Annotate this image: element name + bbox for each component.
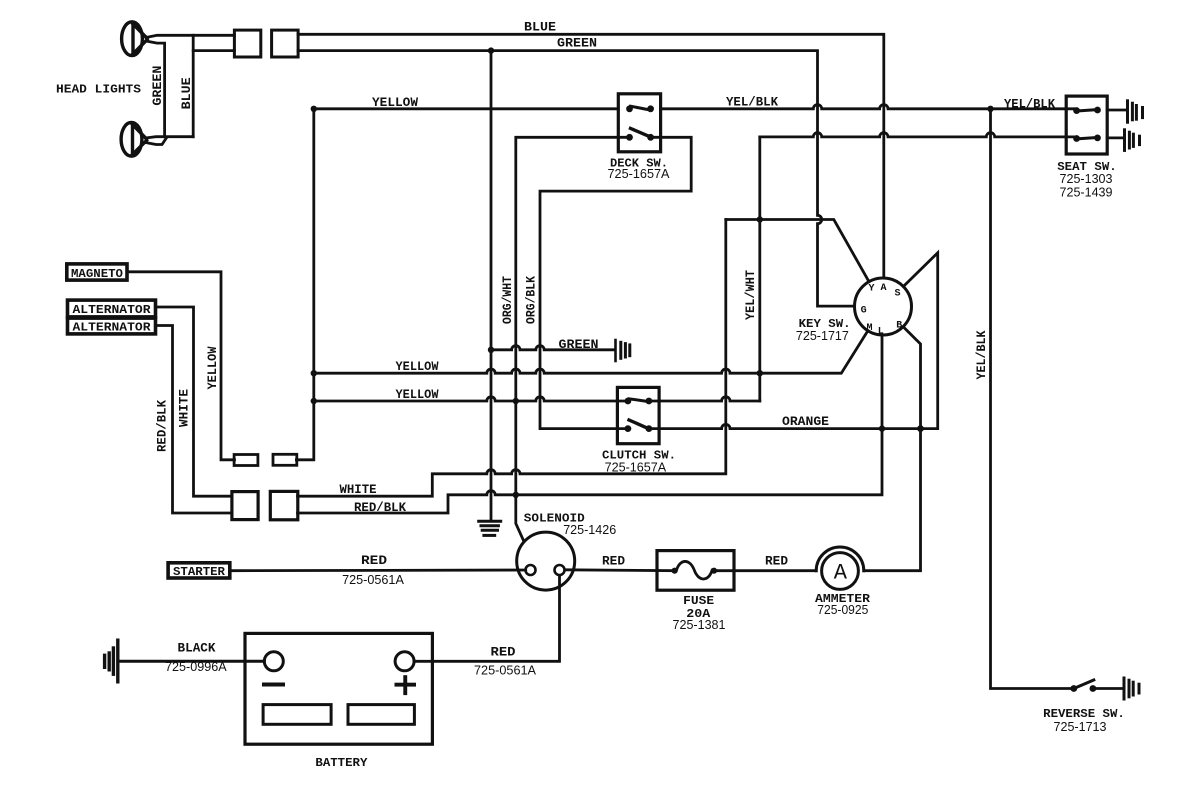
wire ORG/WHT deck to solenoid <box>516 137 630 540</box>
svg-text:YELLOW: YELLOW <box>205 346 220 389</box>
wire GREEN main to key G <box>298 51 854 307</box>
svg-text:S: S <box>894 289 900 300</box>
node riser-yellow1 <box>757 370 763 376</box>
alternator box 1 <box>68 300 156 317</box>
seat switch blade bottom <box>1077 138 1098 139</box>
node orgwht-redblk <box>513 492 519 498</box>
magneto box <box>67 264 127 281</box>
clutch switch blade bottom <box>629 420 647 428</box>
solenoid <box>517 532 575 590</box>
svg-text:ALTERNATOR: ALTERNATOR <box>73 321 152 335</box>
svg-text:ORANGE: ORANGE <box>782 414 829 429</box>
svg-text:725-1439: 725-1439 <box>1060 185 1113 200</box>
wire lamp1 green drop <box>146 41 165 137</box>
wire starter to solenoid RED <box>230 569 526 573</box>
svg-text:A: A <box>880 283 886 294</box>
svg-text:M: M <box>866 323 872 334</box>
connector yellow pin1 <box>234 455 258 466</box>
deck switch blade bottom <box>631 128 649 136</box>
svg-text:GREEN: GREEN <box>150 66 165 106</box>
wire magneto yellow <box>127 272 235 460</box>
svg-text:BATTERY: BATTERY <box>315 756 368 770</box>
clutch switch contacts top <box>625 398 653 405</box>
svg-text:725-1381: 725-1381 <box>673 617 726 632</box>
node orange-B <box>917 425 924 432</box>
connector headlights pin1 <box>234 30 260 57</box>
alternator box 2 <box>68 318 156 334</box>
headlight lamp top <box>122 22 147 56</box>
svg-text:WHITE: WHITE <box>177 389 192 427</box>
wire green to connector <box>193 49 234 52</box>
node green stub tee <box>488 347 494 353</box>
label FUSE 20A <box>673 594 726 632</box>
svg-text:725-0925: 725-0925 <box>817 602 868 617</box>
wire BLACK battery ground <box>119 660 264 663</box>
svg-text:GREEN: GREEN <box>557 36 597 51</box>
wire WHITE to yel-wht riser <box>298 220 726 497</box>
ground chassis seat bottom <box>1125 130 1140 151</box>
ammeter M1 <box>816 547 864 589</box>
svg-text:YEL/BLK: YEL/BLK <box>726 95 778 110</box>
connector white-redblk pin1 <box>232 492 258 520</box>
wire YELLOW no1 top run <box>314 105 1077 109</box>
wire lamp2 top <box>146 137 194 138</box>
svg-text:RED: RED <box>491 644 516 659</box>
wire yellow vertical riser <box>296 109 313 460</box>
battery cell rect 1 <box>263 705 331 725</box>
label AMMETER <box>815 592 871 617</box>
headlight lamp bottom <box>121 122 146 156</box>
svg-text:725-0561A: 725-0561A <box>342 572 404 587</box>
reverse switch contacts <box>1070 685 1096 692</box>
key switch terminal letters <box>861 283 903 338</box>
label BLACK 725-0996A <box>165 641 227 675</box>
svg-text:GREEN: GREEN <box>559 337 599 352</box>
clutch switch box <box>617 387 659 443</box>
node yellow corner top <box>311 106 317 112</box>
wire lamp1 blue stub <box>146 35 234 37</box>
wire reverse to ground <box>1093 687 1123 690</box>
svg-text:725-1426: 725-1426 <box>563 522 616 537</box>
seat switch contacts top <box>1073 107 1101 114</box>
wire alternator white <box>156 307 233 496</box>
svg-text:WHITE: WHITE <box>340 482 377 497</box>
svg-text:YELLOW: YELLOW <box>396 387 439 402</box>
seat switch contacts bottom <box>1073 135 1101 142</box>
deck switch blade top <box>631 106 649 109</box>
node orange-L <box>879 425 885 431</box>
node orgwht-yellow2 <box>513 398 519 404</box>
label CLUTCH SW. <box>602 448 676 474</box>
svg-text:YEL/WHT: YEL/WHT <box>743 270 758 320</box>
wire lamp2 bottom <box>146 138 167 145</box>
svg-text:725-0996A: 725-0996A <box>165 659 227 674</box>
label KEY SW. <box>796 317 851 343</box>
svg-text:STARTER: STARTER <box>173 565 226 579</box>
connector yellow pin2 <box>273 454 297 465</box>
fuse box F1 <box>657 551 734 591</box>
svg-text:A: A <box>834 561 848 586</box>
wire riser x760 <box>758 137 761 401</box>
starter box <box>168 563 230 579</box>
seat switch blade top <box>1077 110 1098 111</box>
node green split <box>488 47 494 53</box>
clutch switch contacts bottom <box>625 425 653 432</box>
wire YELLOW no1 mid run to key M <box>314 331 868 374</box>
fuse element <box>672 561 718 579</box>
wire key L line <box>298 335 883 513</box>
svg-text:RED/BLK: RED/BLK <box>155 400 170 452</box>
wire seat bottom feed <box>760 133 1077 137</box>
label DECK SW. <box>608 157 670 182</box>
ground chassis green stub <box>616 340 630 361</box>
svg-text:ORG/BLK: ORG/BLK <box>524 276 539 324</box>
wire BLUE main to key switch <box>298 34 884 278</box>
label RED 725-0561A battery <box>474 644 536 677</box>
battery cell rect 2 <box>348 705 414 725</box>
svg-text:725-1657A: 725-1657A <box>608 166 670 181</box>
svg-text:YEL/BLK: YEL/BLK <box>974 330 989 379</box>
svg-text:BLACK: BLACK <box>178 641 216 656</box>
wire green stub to chassis ground <box>491 346 614 350</box>
ground chassis battery <box>105 640 118 682</box>
wire RED battery to solenoid <box>414 576 559 662</box>
key switch circle U1 <box>855 278 912 335</box>
svg-text:725-0561A: 725-0561A <box>474 663 536 678</box>
svg-text:BLUE: BLUE <box>524 20 556 35</box>
wire YELLOW no2 to clutch <box>314 397 628 401</box>
wire seat to ground top <box>1107 109 1126 112</box>
ground earth green <box>479 521 501 535</box>
battery positive terminal <box>395 652 417 695</box>
wire YEL/BLK to reverse switch <box>991 109 1074 689</box>
label REVERSE SW. <box>1043 707 1125 734</box>
deck switch contacts top <box>626 105 654 112</box>
label SOLENOID <box>524 511 616 537</box>
deck switch box <box>618 94 660 152</box>
svg-text:MAGNETO: MAGNETO <box>71 267 123 281</box>
svg-text:Y: Y <box>868 284 874 295</box>
wire fuse to ammeter RED <box>713 569 817 572</box>
svg-text:725-1657A: 725-1657A <box>605 459 667 474</box>
reverse switch blade <box>1074 680 1094 689</box>
svg-text:RED: RED <box>602 554 625 569</box>
svg-text:ORG/WHT: ORG/WHT <box>500 276 515 324</box>
ground chassis seat top <box>1128 101 1143 122</box>
battery box <box>245 633 432 744</box>
node yel-blk tee <box>987 106 993 112</box>
wire key A feed <box>726 220 869 282</box>
connector white-redblk pin2 <box>270 491 298 519</box>
connector headlights pin2 <box>272 30 299 57</box>
svg-text:725-1717: 725-1717 <box>796 328 849 343</box>
seat switch box <box>1066 96 1107 154</box>
node yellow tee1 <box>311 370 317 376</box>
ground chassis reverse <box>1124 678 1139 699</box>
wire ORANGE clutch to key B S <box>649 253 938 429</box>
wire clutch top right to riser <box>649 397 760 401</box>
svg-text:YELLOW: YELLOW <box>396 359 439 374</box>
wire key B to ammeter <box>864 327 921 571</box>
svg-text:RED: RED <box>765 554 788 569</box>
wire seat to ground bottom <box>1107 136 1122 139</box>
deck switch contacts bottom <box>626 134 654 141</box>
wire blue vertical <box>192 35 195 136</box>
svg-text:YEL/BLK: YEL/BLK <box>1004 97 1055 112</box>
svg-text:B: B <box>896 321 902 332</box>
node yellow tee2 <box>311 398 317 404</box>
svg-text:RED/BLK: RED/BLK <box>354 500 406 515</box>
node riser-keyfeed <box>757 216 763 222</box>
label SEAT SW. <box>1057 160 1117 200</box>
svg-text:725-1713: 725-1713 <box>1054 719 1107 734</box>
battery negative terminal <box>262 652 285 687</box>
svg-text:ALTERNATOR: ALTERNATOR <box>73 303 152 317</box>
svg-text:G: G <box>861 306 867 317</box>
svg-text:BLUE: BLUE <box>179 77 194 109</box>
wire green drop to ground <box>490 51 493 521</box>
label RED 725-0561A starter <box>342 553 404 587</box>
wire solenoid to fuse RED <box>566 568 677 572</box>
wire alternator redblk <box>156 326 233 514</box>
clutch switch blade top <box>629 399 647 402</box>
wire ORG/BLK deck loop to clutch <box>540 137 691 428</box>
svg-text:RED: RED <box>361 553 387 568</box>
svg-text:HEAD LIGHTS: HEAD LIGHTS <box>56 83 142 97</box>
svg-text:YELLOW: YELLOW <box>372 95 418 110</box>
